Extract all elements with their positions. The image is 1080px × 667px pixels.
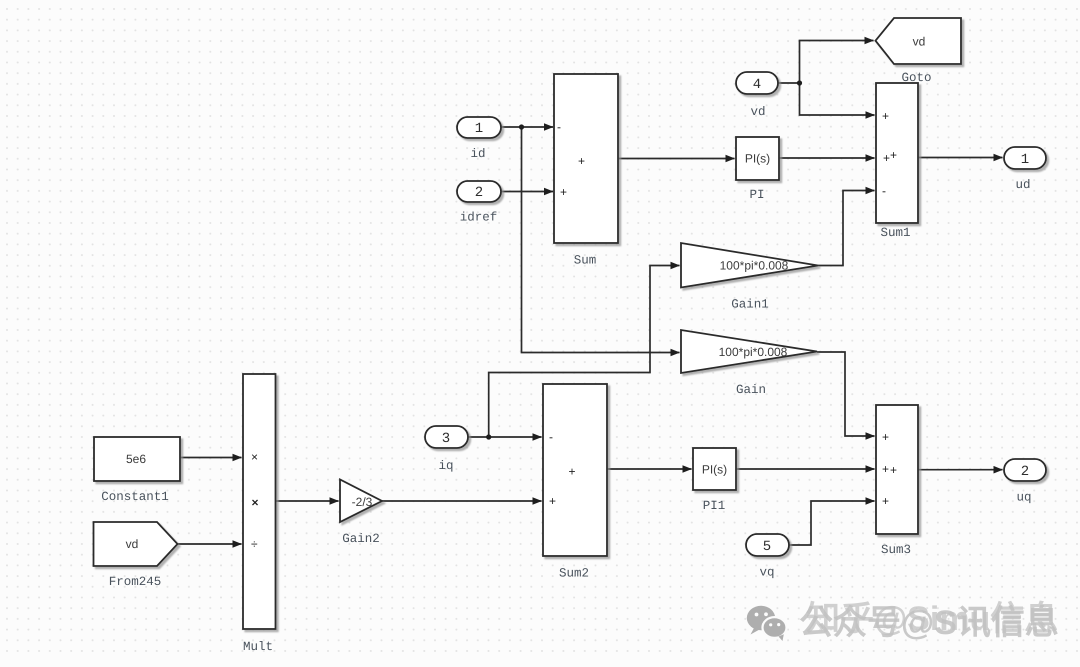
svg-text:-: - (549, 430, 553, 444)
svg-text:1: 1 (1021, 152, 1029, 168)
svg-text:PI1: PI1 (703, 499, 726, 513)
Sum3 block (876, 405, 918, 534)
outport 1 oval ud (1004, 147, 1046, 169)
watermark wechat icon (747, 606, 787, 641)
wire: Sum3 output to outport uq (918, 469, 1003, 471)
wire: port4 vd to junction (778, 82, 800, 84)
Sum block (554, 74, 618, 243)
Constant1 block (94, 437, 180, 481)
svg-text:Sum: Sum (574, 254, 597, 268)
svg-text:+: + (549, 494, 556, 508)
wire: Constant1 to Mult input1 (180, 457, 242, 459)
wire: PI output to Sum1 input2 (779, 157, 875, 159)
wire: Sum2 output to PI1 (607, 468, 692, 470)
svg-text:2: 2 (1021, 464, 1029, 480)
svg-text:+: + (882, 109, 889, 123)
watermark text (799, 600, 1059, 642)
wire: Sum1 output to outport ud (918, 157, 1003, 159)
inport 3 oval (425, 426, 468, 448)
svg-text:+: + (883, 151, 890, 165)
svg-text:vd: vd (750, 105, 765, 119)
wire: PI1 output to Sum3 input2 (736, 468, 875, 470)
svg-text:3: 3 (442, 431, 450, 447)
wire: iq branch up to Gain1 input (489, 266, 680, 438)
wire: id branch down to Gain input (522, 127, 680, 353)
svg-text:-2/3: -2/3 (352, 495, 373, 509)
svg-text:×: × (252, 496, 259, 510)
svg-text:×: × (251, 450, 258, 464)
svg-text:ud: ud (1015, 178, 1030, 192)
svg-text:From245: From245 (109, 575, 162, 589)
From245 block (94, 522, 178, 566)
outport 2 oval uq (1004, 459, 1046, 481)
Sum2 block (543, 384, 607, 556)
svg-text:+: + (890, 463, 897, 477)
Sum1 block (876, 83, 918, 223)
svg-text:Gain1: Gain1 (731, 298, 769, 312)
svg-text:vq: vq (759, 566, 774, 580)
wire: junction up to Goto (800, 41, 874, 84)
svg-text:1: 1 (475, 121, 483, 137)
svg-text:+: + (882, 462, 889, 476)
Goto block (876, 18, 962, 64)
Gain2 triangle (340, 480, 382, 523)
wire: port1 id to Sum minus input (501, 126, 553, 128)
svg-text:Gain2: Gain2 (342, 532, 380, 546)
svg-text:idref: idref (460, 211, 498, 225)
wire: junction down to Sum1 input1 (800, 83, 875, 115)
inport 2 oval (457, 181, 501, 202)
inport 4 oval (736, 72, 778, 94)
junction dot vd (797, 80, 802, 85)
svg-text:+: + (882, 430, 889, 444)
svg-text:-: - (882, 184, 886, 198)
wire: Mult output to Gain2 (276, 500, 339, 502)
wire: port3 iq to Sum2 minus input (468, 436, 542, 438)
svg-text:Gain: Gain (736, 383, 766, 397)
Mult block (243, 374, 276, 629)
svg-text:2: 2 (475, 185, 483, 201)
PI1 block (693, 448, 736, 490)
PI block (736, 137, 779, 180)
svg-text:Mult: Mult (243, 640, 273, 654)
wire: port5 vq to Sum3 input3 (789, 501, 875, 545)
svg-text:100*pi*0.008: 100*pi*0.008 (720, 259, 789, 273)
inport 1 oval (457, 117, 501, 138)
svg-text:iq: iq (438, 459, 453, 473)
svg-text:vd: vd (913, 35, 926, 49)
wire: Gain1 output to Sum1 input3 (818, 191, 875, 266)
svg-text:知乎@Simu信息: 知乎@Simu信息 (806, 600, 1058, 638)
Gain1 triangle (681, 243, 818, 288)
svg-text:-: - (557, 120, 561, 134)
svg-text:100*pi*0.008: 100*pi*0.008 (719, 345, 788, 359)
svg-text:PI(s): PI(s) (702, 463, 727, 477)
wire: Gain2 output to Sum2 plus input (382, 500, 542, 502)
svg-text:PI(s): PI(s) (745, 152, 770, 166)
wire: port2 idref to Sum plus input (501, 191, 553, 193)
svg-text:Sum2: Sum2 (559, 567, 589, 581)
junction dot iq (486, 434, 491, 439)
junction dot id (519, 124, 524, 129)
wire: From245 to Mult input3 (178, 543, 242, 545)
wire: Gain output to Sum3 input1 (817, 352, 875, 436)
svg-text:+: + (560, 185, 567, 199)
svg-text:uq: uq (1016, 491, 1031, 505)
svg-text:+: + (882, 494, 889, 508)
svg-text:+: + (569, 465, 576, 479)
svg-text:÷: ÷ (251, 537, 258, 551)
svg-text:Constant1: Constant1 (101, 490, 169, 504)
svg-text:PI: PI (749, 188, 764, 202)
inport 5 oval (746, 534, 789, 556)
svg-text:4: 4 (753, 77, 761, 93)
svg-text:5e6: 5e6 (126, 452, 146, 466)
svg-text:id: id (470, 147, 485, 161)
Gain triangle (681, 330, 817, 373)
wire: Sum output to PI (618, 158, 735, 160)
svg-text:Sum1: Sum1 (880, 226, 910, 240)
svg-text:Sum3: Sum3 (881, 543, 911, 557)
svg-text:Goto: Goto (901, 71, 931, 85)
svg-text:vd: vd (126, 537, 139, 551)
svg-text:+: + (578, 154, 585, 168)
svg-text:+: + (890, 148, 897, 162)
svg-text:5: 5 (763, 539, 771, 555)
